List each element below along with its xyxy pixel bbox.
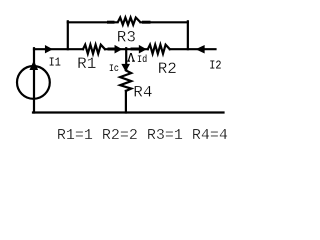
svg-text:R3: R3 <box>117 28 136 46</box>
svg-text:I2: I2 <box>209 60 221 73</box>
svg-text:R1=1 R2=2 R3=1 R4=4: R1=1 R2=2 R3=1 R4=4 <box>57 127 228 144</box>
svg-text:R2: R2 <box>158 60 177 78</box>
svg-text:Id: Id <box>137 53 147 65</box>
svg-text:Ic: Ic <box>109 63 119 75</box>
svg-text:R4: R4 <box>133 83 152 101</box>
svg-text:I1: I1 <box>49 57 62 70</box>
svg-text:R1: R1 <box>77 55 96 73</box>
